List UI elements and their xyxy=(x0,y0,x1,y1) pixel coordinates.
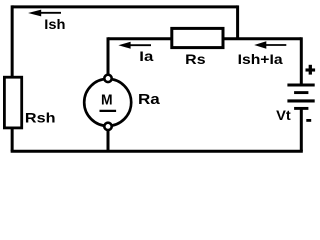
current arrow Ia xyxy=(118,42,151,49)
motor terminal top xyxy=(104,75,111,82)
wire bottom horizontal xyxy=(11,150,303,153)
svg-text:Rsh: Rsh xyxy=(25,109,56,125)
wire top-right vertical drop xyxy=(236,5,239,38)
current arrow Ish xyxy=(28,10,61,17)
wire top horizontal xyxy=(12,5,237,8)
resistor Rs xyxy=(172,28,223,47)
current arrow Ish+Ia xyxy=(254,41,286,48)
svg-text:Ish+Ia: Ish+Ia xyxy=(238,51,283,67)
wire right vertical upper (to battery +) xyxy=(300,37,303,85)
svg-text:Ish: Ish xyxy=(44,16,65,32)
motor terminal bottom xyxy=(104,123,111,130)
wire middle horizontal xyxy=(108,37,301,40)
motor U1 circle xyxy=(84,79,131,126)
wire motor bottom vertical xyxy=(107,126,110,151)
wire motor top vertical xyxy=(107,37,110,77)
wire left vertical xyxy=(11,5,14,151)
svg-text:Vt: Vt xyxy=(276,107,291,123)
battery Vt plate 3 long xyxy=(287,99,314,102)
battery Vt plate 1 long (+) xyxy=(287,84,314,87)
wire right vertical lower (from battery -) xyxy=(300,108,303,151)
battery Vt plate 4 short (-) xyxy=(294,107,308,110)
label + (plus sign) xyxy=(306,65,316,75)
motor M underline xyxy=(100,110,117,112)
svg-text:Ra: Ra xyxy=(138,92,161,108)
resistor Rsh xyxy=(4,77,21,128)
label - (minus sign) xyxy=(306,119,311,122)
svg-text:Ia: Ia xyxy=(139,48,153,64)
svg-text:M: M xyxy=(101,92,113,108)
battery Vt plate 2 short xyxy=(294,91,308,94)
svg-text:Rs: Rs xyxy=(185,51,206,67)
